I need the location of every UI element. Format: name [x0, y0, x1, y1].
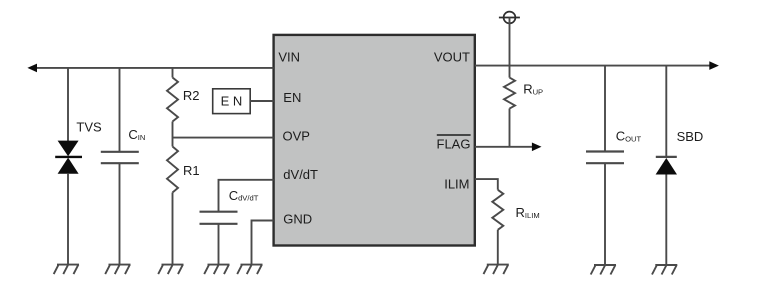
wire: SBD to ground: [665, 175, 667, 266]
svg-text:TVS: TVS: [76, 120, 102, 135]
wire: RILIM to ground: [497, 230, 499, 265]
ground under GND pin: [237, 265, 262, 275]
capacitor CIN: [101, 152, 139, 163]
wire: OVP net to pin: [173, 137, 274, 139]
pin VOUT label: [434, 49, 470, 64]
arrowhead left end of input bus: [27, 64, 37, 73]
svg-text:SBD: SBD: [677, 129, 704, 144]
R2 label: [183, 88, 200, 103]
wire: FLAG pin net: [475, 146, 534, 148]
resistor R2: [167, 78, 178, 122]
ground under SBD: [652, 265, 677, 275]
wire: probe to bus and RUP: [509, 18, 511, 78]
wire: dV/dT pin to CdV/dT: [219, 180, 274, 212]
wire: COUT branch from bus: [604, 66, 606, 152]
svg-text:OVP: OVP: [283, 128, 310, 143]
wire: R1 to ground: [172, 193, 174, 265]
svg-text:EN: EN: [283, 90, 301, 105]
SBD label: [677, 129, 704, 144]
svg-text:FLAG: FLAG: [437, 137, 471, 152]
svg-text:COUT: COUT: [616, 129, 642, 144]
TVS D1 bidirectional suppressor symbol: [55, 141, 82, 174]
wire: SBD branch from bus: [665, 66, 667, 157]
svg-text:RUP: RUP: [523, 82, 543, 97]
wire: input bus VIN rail: [36, 67, 274, 69]
wire: COUT to ground: [604, 163, 606, 265]
svg-text:E N: E N: [221, 93, 243, 108]
svg-text:GND: GND: [283, 212, 312, 227]
ground under COUT: [591, 265, 616, 275]
RUP label: [523, 82, 543, 97]
capacitor CdV/dT: [200, 212, 238, 224]
pin FLAG label with overline: [437, 135, 471, 152]
svg-text:R1: R1: [183, 163, 200, 178]
R1 label: [183, 163, 200, 178]
svg-text:CdV/dT: CdV/dT: [229, 188, 259, 203]
ground under RILIM: [484, 265, 509, 275]
svg-text:dV/dT: dV/dT: [283, 167, 318, 182]
schottky diode SBD: [656, 157, 677, 175]
pin dV/dT label: [283, 167, 318, 182]
wire: CIN to ground: [119, 163, 121, 264]
resistor RILIM: [492, 190, 503, 230]
wire: output bus VOUT rail: [475, 65, 711, 67]
resistor RUP: [504, 78, 515, 109]
COUT label: [616, 129, 642, 144]
capacitor COUT: [586, 152, 624, 164]
svg-text:VOUT: VOUT: [434, 49, 470, 64]
probe point symbol on VOUT: [499, 12, 520, 24]
svg-text:R2: R2: [183, 88, 200, 103]
wire: EN box to EN pin: [250, 100, 273, 102]
CdV/dT label: [229, 188, 259, 203]
CIN label: [128, 127, 145, 142]
pin OVP label: [283, 128, 310, 143]
IC U1 body: [274, 35, 475, 246]
pin EN label: [283, 90, 301, 105]
pin GND label: [283, 212, 312, 227]
wire: GND pin to ground: [252, 221, 274, 265]
ground under CIN: [105, 265, 130, 275]
arrowhead right end of output bus: [709, 61, 719, 70]
EN source box: [213, 89, 251, 114]
svg-text:ILIM: ILIM: [444, 177, 469, 192]
wire: R2 branch from bus: [172, 68, 174, 78]
wire: CdV/dT to ground: [218, 224, 220, 265]
pin ILIM label: [444, 177, 469, 192]
svg-text:CIN: CIN: [128, 127, 145, 142]
wire: TVS branch from bus: [67, 68, 69, 141]
wire: ILIM pin to RILIM: [475, 179, 498, 190]
wire: RUP to FLAG net: [509, 109, 511, 147]
wire: TVS to ground: [67, 174, 69, 265]
RILIM label: [516, 205, 540, 220]
ground under R1: [158, 265, 183, 275]
wire: CIN branch from bus: [119, 68, 121, 152]
resistor R1: [167, 147, 178, 193]
arrowhead FLAG net: [532, 143, 542, 152]
TVS label: [76, 120, 102, 135]
ground under CdV/dT: [204, 265, 229, 275]
svg-text:RILIM: RILIM: [516, 205, 540, 220]
ground under TVS: [54, 265, 79, 275]
svg-text:VIN: VIN: [278, 49, 300, 64]
wire: R2 to OVP junction: [172, 122, 174, 147]
pin VIN label: [278, 49, 300, 64]
